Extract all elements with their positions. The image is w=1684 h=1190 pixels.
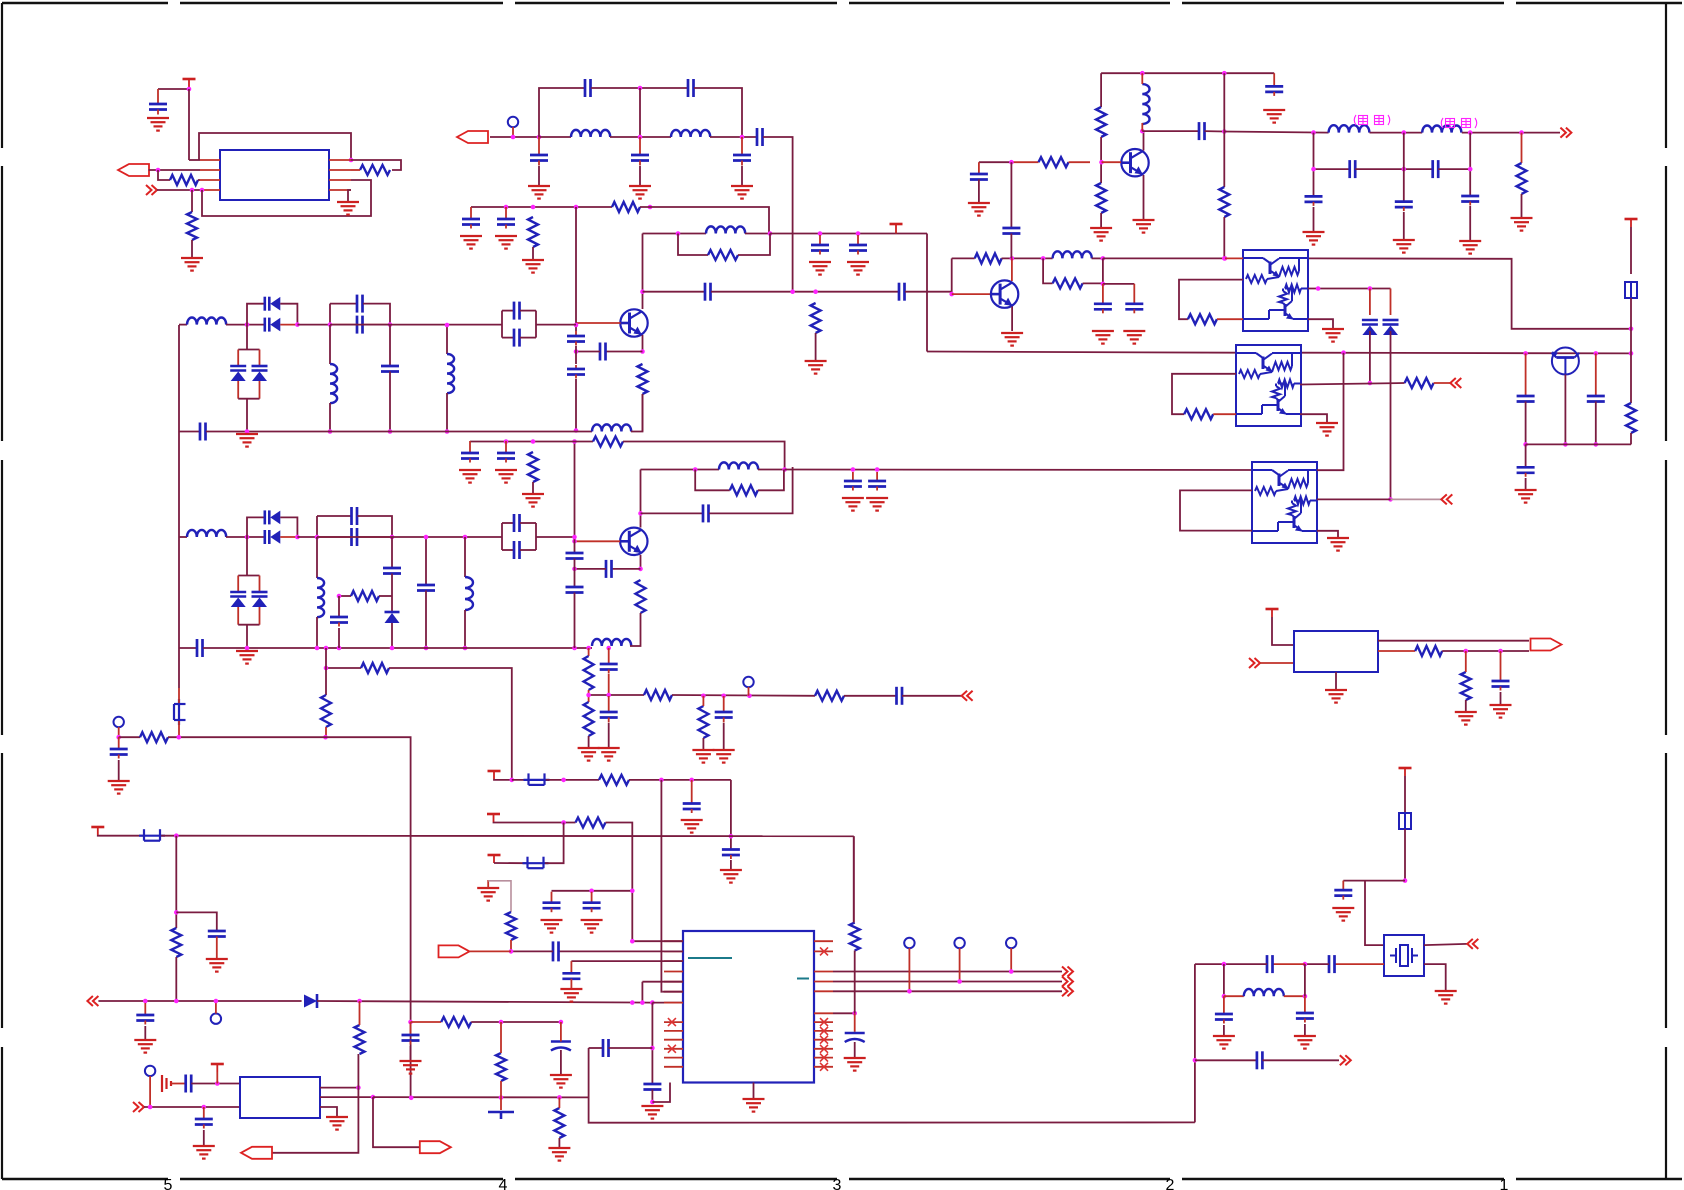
wire left vert low2 bbox=[178, 721, 180, 737]
jumper J y863 bbox=[523, 857, 549, 869]
junction 179-737 bbox=[177, 735, 182, 740]
diode D clamp 2 bbox=[1383, 320, 1399, 335]
wire pin4R to gnd bbox=[348, 190, 351, 202]
wire x1525 down2 bbox=[1525, 444, 1527, 467]
wire bottom loop bbox=[202, 180, 371, 216]
wire pin2R stub bbox=[351, 169, 360, 171]
power T osc bbox=[211, 1064, 224, 1072]
junction x465 top bbox=[463, 535, 468, 540]
wire f mid bbox=[1370, 132, 1423, 134]
ground Q4 bbox=[1001, 333, 1023, 346]
resistor R tankR bbox=[1053, 278, 1083, 288]
wire U3 p1013 bbox=[833, 1012, 855, 1014]
wire branch x217 bbox=[176, 912, 217, 931]
junction 176-836 bbox=[174, 833, 179, 838]
capacitor C emitter b2 bbox=[606, 560, 612, 578]
junction 696-1 bbox=[701, 694, 706, 699]
resistor R x176 bbox=[171, 928, 181, 957]
pin U1 right 4 bbox=[329, 189, 351, 191]
junction x426 bot bbox=[424, 646, 429, 651]
wire emitter v bbox=[642, 335, 644, 352]
wire x574 low bbox=[574, 593, 576, 649]
junction 652-1002 bbox=[650, 1000, 655, 1005]
wire bypass right bbox=[280, 304, 297, 325]
wire tank left bbox=[643, 233, 707, 235]
junction 563-822 bbox=[561, 820, 566, 825]
resistor R U7 out bbox=[1415, 646, 1442, 656]
wire fb row b2 l bbox=[470, 441, 593, 443]
wire Q2 base bbox=[575, 540, 621, 542]
wire fs3 gnd bbox=[1469, 206, 1471, 241]
testpoint TP3 bbox=[743, 677, 753, 687]
wire L1-L2 bbox=[610, 136, 671, 138]
power T x1631 bbox=[1625, 219, 1638, 227]
junction pin2 node bbox=[509, 949, 514, 954]
wire U3 pin3 bbox=[571, 960, 683, 962]
testpoint TPb2 bbox=[954, 938, 964, 948]
junction 576-430 bbox=[574, 428, 579, 433]
port arrow bottom L bbox=[241, 1147, 272, 1159]
junction x465 bot bbox=[463, 646, 468, 651]
resistor R x560 bbox=[554, 1108, 564, 1138]
IC dual transistor block U4 bbox=[1243, 250, 1308, 331]
junction 696-3 bbox=[747, 694, 752, 699]
ground C1001 bbox=[134, 1040, 156, 1053]
junction Q4 base bbox=[949, 292, 954, 297]
wire y696 to chev bbox=[902, 695, 961, 697]
wire pin3 gnd bbox=[570, 979, 572, 989]
wire emitter cap row bbox=[606, 351, 643, 353]
triple chevron bus out bbox=[1062, 967, 1073, 997]
wire varactor loop bottom bbox=[238, 624, 259, 626]
capacitor Cq bottom bbox=[514, 541, 520, 559]
junction 1305-996 bbox=[1303, 994, 1308, 999]
wire div589 up bbox=[588, 648, 590, 656]
wire CU7 gnd bbox=[1500, 692, 1502, 705]
svg-text:4: 4 bbox=[499, 1177, 508, 1190]
junction 691-780 bbox=[689, 778, 694, 783]
ground Cx410 bbox=[400, 1061, 422, 1074]
ground x1343 bbox=[1332, 908, 1354, 921]
junction 1142-73 bbox=[1140, 71, 1145, 76]
ground x652 bbox=[641, 1106, 663, 1119]
resistor R y258 bbox=[975, 253, 1002, 263]
wire x1224 low bbox=[1223, 217, 1225, 260]
ground x560 bbox=[548, 1148, 570, 1161]
wire f v4 bbox=[1521, 133, 1523, 163]
resistor R feedback1 bbox=[612, 202, 640, 212]
junction 1101-162 bbox=[1099, 160, 1104, 165]
junction n2 bbox=[200, 188, 205, 193]
wire pin2R net bbox=[351, 160, 401, 170]
junction 145-1001 bbox=[143, 999, 148, 1004]
wire R to gnd bbox=[191, 240, 193, 258]
crystal filter box bbox=[1384, 935, 1424, 976]
resistor R x1101 a bbox=[1096, 107, 1106, 137]
junction TP1 bbox=[511, 135, 516, 140]
resistor R U4 loop bbox=[1188, 314, 1217, 324]
capacitor C f1 bbox=[1350, 160, 1356, 178]
capacitor C x392 b2 bbox=[383, 568, 401, 574]
wire U6 loop bbox=[1180, 490, 1252, 530]
wire x358 up bbox=[357, 1054, 359, 1088]
capacitor C 574a bbox=[566, 553, 584, 559]
wire x1595 low bbox=[1595, 402, 1597, 445]
pin U3 left bbox=[664, 960, 683, 962]
wire div609 gnd bbox=[608, 723, 610, 748]
junction 574-537 bbox=[572, 535, 577, 540]
wire f v1 bbox=[1313, 133, 1315, 197]
inductor L wirewound 1 bbox=[1329, 125, 1370, 132]
testpoint TP2 bbox=[114, 717, 124, 727]
wire supply row bbox=[770, 233, 927, 235]
resistor R y822 bbox=[576, 818, 606, 828]
wire D2 to node bbox=[280, 324, 297, 326]
wire em cap l b2 bbox=[575, 568, 607, 570]
alt-ground bars left of crystal cap bbox=[162, 1075, 186, 1092]
pin U3 left bbox=[664, 1030, 683, 1032]
chevron out y696 bbox=[962, 691, 973, 701]
wire xtal vert bbox=[1404, 776, 1406, 813]
ground U2 bbox=[326, 1117, 348, 1130]
capacitor C x426 bbox=[417, 585, 435, 591]
wire left vert low bbox=[178, 688, 180, 703]
pin U3 right bbox=[814, 1039, 833, 1041]
resistor R emitter1 bbox=[638, 364, 648, 394]
pin U3 right bbox=[814, 1057, 833, 1059]
wire diode2 low bbox=[1390, 331, 1392, 499]
capacitor C tr2 bbox=[1125, 284, 1143, 314]
wire x1101 mid bbox=[1100, 137, 1102, 183]
junction gnd node b1 bbox=[245, 429, 250, 434]
wire cp2 top bbox=[502, 310, 514, 312]
wire down to R bbox=[158, 170, 170, 180]
wire Q3 collector bbox=[1143, 131, 1145, 150]
wire Cosc gnd bbox=[203, 1130, 205, 1146]
wire varactor stem bbox=[246, 399, 248, 432]
IC U3 main controller bbox=[683, 931, 814, 1083]
capacitor C polar x855 bbox=[845, 1033, 865, 1042]
jumper vertical left bbox=[174, 699, 186, 725]
junction TPb1 bbox=[907, 989, 912, 994]
wire y696 mid bbox=[672, 694, 815, 697]
varactor D2 bbox=[252, 592, 268, 607]
chevron out y1060 bbox=[1340, 1055, 1351, 1065]
capacitor Cp top bbox=[352, 507, 358, 525]
power T y822 bbox=[487, 814, 500, 822]
ground under R pulldown bbox=[181, 258, 203, 271]
wire to vertical bus bbox=[763, 137, 793, 292]
wire U4 loop r bbox=[1217, 318, 1243, 320]
ground fs3 bbox=[1459, 241, 1481, 254]
junction tank R bbox=[768, 231, 773, 236]
junction cp L bbox=[328, 322, 333, 327]
wire T stub bbox=[895, 232, 897, 234]
wire Q4 base stub bbox=[952, 293, 991, 295]
inductor L tank b2 bbox=[719, 462, 758, 469]
junction 1305-964 bbox=[1303, 962, 1308, 967]
ground x979 bbox=[968, 203, 990, 216]
varactor D1 bbox=[230, 366, 246, 381]
wire diode bypass loop bbox=[247, 304, 265, 325]
port arrow bottom R bbox=[420, 1141, 451, 1153]
power T y836 bbox=[91, 827, 104, 835]
wire x855 up bbox=[853, 836, 855, 922]
junction 390 bot bbox=[388, 429, 393, 434]
svg-text:2: 2 bbox=[1166, 1177, 1175, 1190]
wire coupling row bbox=[643, 291, 706, 293]
junction 632-890 bbox=[630, 889, 635, 894]
wire cp2 botr bbox=[520, 549, 536, 551]
ground fbrow1 bbox=[459, 470, 481, 483]
resistor R div589 dn bbox=[584, 702, 594, 736]
capacitor C fs1 bbox=[1305, 196, 1323, 206]
zone numbers bbox=[164, 1177, 1509, 1190]
IC dual transistor block U5 bbox=[1236, 345, 1301, 426]
wire div589 mid bbox=[588, 690, 590, 702]
wire cp2 topr bbox=[520, 310, 536, 312]
wire tank bypass b2 bbox=[695, 470, 730, 491]
ground bias1 bbox=[460, 236, 482, 249]
junction bias3 bbox=[531, 205, 536, 210]
inductor L tank1 bbox=[706, 226, 745, 233]
ground x1525 bbox=[1515, 490, 1537, 503]
junction x426 top bbox=[424, 535, 429, 540]
junction 1195-1060 bbox=[1193, 1058, 1198, 1063]
inductor L2 pi-filter bbox=[671, 130, 710, 137]
wire RU7 stub bbox=[1465, 651, 1467, 672]
ground x561 bbox=[550, 1075, 572, 1088]
wire 576 low bbox=[575, 379, 577, 431]
fuse F x1631 bbox=[1625, 282, 1637, 298]
wire U3 pin2 cap bbox=[559, 950, 684, 952]
capacitor C x1343 bbox=[1334, 890, 1352, 900]
wire y1022 r bbox=[471, 1021, 561, 1023]
junction tankR R bbox=[1101, 256, 1106, 261]
capacitor C lc2 bbox=[1296, 1013, 1314, 1023]
varactor D2 bbox=[252, 366, 268, 381]
IC U1 filter box bbox=[220, 150, 329, 200]
junction 410-1022 bbox=[408, 1020, 413, 1025]
junction 1525-353 bbox=[1523, 351, 1528, 356]
wire tank bypass bbox=[678, 234, 708, 256]
wire f v3 bbox=[1469, 133, 1471, 196]
varactor D main lower bbox=[265, 530, 281, 544]
capacitor C fbrow1 bbox=[461, 441, 479, 463]
wire x1224 vert bbox=[1223, 73, 1225, 187]
capacitor Cq top bbox=[514, 302, 520, 320]
ground div703 bbox=[692, 750, 714, 763]
junction bias2 bbox=[504, 205, 509, 210]
wire y737 l bbox=[119, 736, 140, 738]
junction 1224-131 bbox=[1222, 129, 1227, 134]
inductor L input bbox=[187, 530, 226, 537]
wire Q2 emitter bbox=[640, 555, 642, 569]
wire U7 out top bbox=[1378, 640, 1529, 642]
resistor R U7 shunt bbox=[1461, 672, 1471, 700]
ground pin3 bbox=[560, 989, 582, 1002]
resistor R div703 bbox=[698, 706, 708, 738]
wire U5 out r bbox=[1434, 382, 1451, 384]
wire U3 pin5 bbox=[642, 981, 683, 983]
ground U1 right bbox=[337, 202, 359, 215]
wire x373 drop bbox=[373, 1097, 420, 1147]
ground RU7 bbox=[1455, 712, 1477, 725]
ground Cosc bbox=[193, 1146, 215, 1159]
junction 1631-353 bbox=[1629, 351, 1634, 356]
junction 360-1001 bbox=[357, 999, 362, 1004]
wire branch to x392 bbox=[379, 595, 392, 597]
wire U3 bus 1 bbox=[833, 971, 1062, 973]
stub TP1 bbox=[512, 127, 514, 137]
wire sup corner down bbox=[926, 234, 928, 352]
junction diode out bbox=[295, 535, 300, 540]
capacitor C lower b2 bbox=[197, 639, 203, 657]
wire U7 res r bbox=[1442, 650, 1529, 652]
junction 574-569 bbox=[572, 567, 577, 572]
ground div609 bbox=[598, 748, 620, 761]
pin U3 left bbox=[664, 1021, 683, 1023]
wire tank bypass b2r bbox=[758, 470, 784, 491]
junction 1370-383 bbox=[1368, 381, 1373, 386]
testpoint TPb3 bbox=[1006, 938, 1016, 948]
capacitor C pin2 bbox=[553, 941, 559, 961]
wire Rfbrow gnd bbox=[532, 482, 534, 494]
wire cp2 out bbox=[536, 324, 576, 326]
wire x330 drop2 bbox=[329, 403, 331, 432]
capacitor C shunt x640 bbox=[631, 137, 649, 166]
capacitor C couple2 bbox=[899, 283, 905, 301]
wire branch y596 bbox=[339, 595, 351, 597]
no-connect X right bbox=[820, 1045, 828, 1053]
wire cp2 botr bbox=[520, 337, 536, 339]
wire x392 mid bbox=[391, 574, 393, 613]
wire x560 gnd bbox=[558, 1138, 560, 1148]
inductor L emitter b1 bbox=[592, 424, 631, 431]
junction 447 bot bbox=[445, 429, 450, 434]
no-connect X right bbox=[820, 947, 828, 955]
junction tank b2 R bbox=[782, 467, 787, 472]
junction fbrow3 bbox=[531, 439, 536, 444]
junction 411-1097 bbox=[409, 1096, 414, 1101]
wire cp2 bot bbox=[502, 337, 514, 339]
capacitor C sup2 bbox=[849, 235, 867, 255]
ground Rbias bbox=[522, 260, 544, 273]
capacitor C x1525 bbox=[1517, 396, 1535, 402]
wire y668 row bbox=[326, 667, 361, 669]
junction 1595-353 bbox=[1594, 351, 1599, 356]
ground lc1 bbox=[1213, 1036, 1235, 1049]
junction 373-1097 bbox=[371, 1095, 376, 1100]
wire VCC into pin bbox=[189, 159, 200, 161]
wire lc ind stub bbox=[1224, 995, 1244, 997]
chevron out U5 bbox=[1450, 378, 1461, 388]
resistor R U5 out bbox=[1405, 378, 1434, 388]
wire x326 vert bbox=[325, 648, 327, 695]
pin U3 left bbox=[664, 1066, 683, 1068]
wire U3 pin1 bbox=[632, 940, 683, 942]
wire x390 drop2 bbox=[389, 372, 391, 432]
wire main line left bbox=[179, 536, 187, 538]
junction f v3 bbox=[1468, 167, 1473, 172]
wire y1002 to IC bbox=[652, 1002, 683, 1004]
wire sup row b2 bbox=[785, 469, 1252, 472]
junction 589-648 bbox=[586, 646, 591, 651]
junction 1103-283 bbox=[1101, 282, 1106, 287]
wire y780 r bbox=[629, 779, 731, 781]
wire fs2 gnd bbox=[1403, 212, 1405, 240]
wire div703 stub bbox=[702, 696, 704, 706]
ground div723 bbox=[713, 750, 735, 763]
wire x1525 gnd bbox=[1525, 478, 1527, 490]
pin U1 right 1 bbox=[329, 159, 351, 161]
junction 176-1001 bbox=[174, 999, 179, 1004]
wire port to line bbox=[490, 136, 539, 138]
wire x501 mid bbox=[500, 1022, 502, 1053]
wire Q4 base node bbox=[951, 258, 953, 294]
resistor R y668 bbox=[361, 663, 389, 673]
junction diode in bbox=[245, 322, 250, 327]
wire lc row964 bbox=[1273, 963, 1305, 965]
ground x691 bbox=[681, 820, 703, 833]
capacitor C y1060 bbox=[1257, 1051, 1263, 1069]
junction 1225-258 bbox=[1223, 256, 1228, 261]
wire x855 mid bbox=[854, 951, 856, 1014]
wire Rem to row bbox=[642, 394, 644, 432]
wire f caprow3 bbox=[1438, 168, 1470, 170]
resistor R x326 bbox=[321, 695, 331, 727]
pin U3 right bbox=[814, 1012, 833, 1014]
wire U3 gnd stem bbox=[753, 1083, 755, 1100]
junction TPb2 bbox=[957, 979, 962, 984]
ground sup1 bbox=[809, 262, 831, 275]
wire y1001 l bbox=[98, 1000, 301, 1002]
junction osc T bbox=[215, 1081, 220, 1086]
capacitor C emitter bbox=[600, 343, 606, 361]
wire varactor right leg2 bbox=[259, 607, 261, 625]
wire U4 gnd bbox=[1308, 319, 1333, 329]
wire Q3 base stub bbox=[1102, 161, 1122, 163]
junction bias4 bbox=[574, 205, 579, 210]
wire varactor right leg2 bbox=[259, 381, 261, 399]
wire Rload gnd bbox=[815, 333, 817, 361]
wire x426 low bbox=[425, 591, 427, 649]
chevron in osc bbox=[133, 1102, 144, 1112]
wire div589 gnd bbox=[588, 736, 590, 748]
wire U5 out mid bbox=[1300, 383, 1405, 385]
no-connect X right bbox=[820, 1027, 828, 1035]
wire bus352 bbox=[927, 352, 1236, 353]
inductor L input bbox=[187, 317, 226, 324]
wire C742 to gnd bbox=[741, 166, 743, 186]
wire lower b2 main bbox=[203, 647, 592, 649]
wire x730 drop bbox=[730, 780, 732, 850]
wire main line left bbox=[179, 324, 187, 326]
junction 1012-258 bbox=[1010, 256, 1015, 261]
ground shunt x640 bbox=[629, 186, 651, 199]
wire div609 mid bbox=[608, 674, 610, 695]
junction 642-1002 bbox=[640, 1000, 645, 1005]
resistor R bias bbox=[528, 217, 538, 247]
crystal symbol bbox=[1390, 945, 1418, 966]
junction tankR L bbox=[1041, 256, 1046, 261]
capacitor C 576a bbox=[567, 331, 585, 346]
wire CTP2 gnd bbox=[118, 760, 120, 781]
pin U3 right bbox=[814, 1030, 833, 1032]
wire x730 gnd bbox=[730, 860, 732, 870]
wire couple row y131 bbox=[1142, 130, 1199, 132]
pin U3 left bbox=[664, 971, 683, 973]
